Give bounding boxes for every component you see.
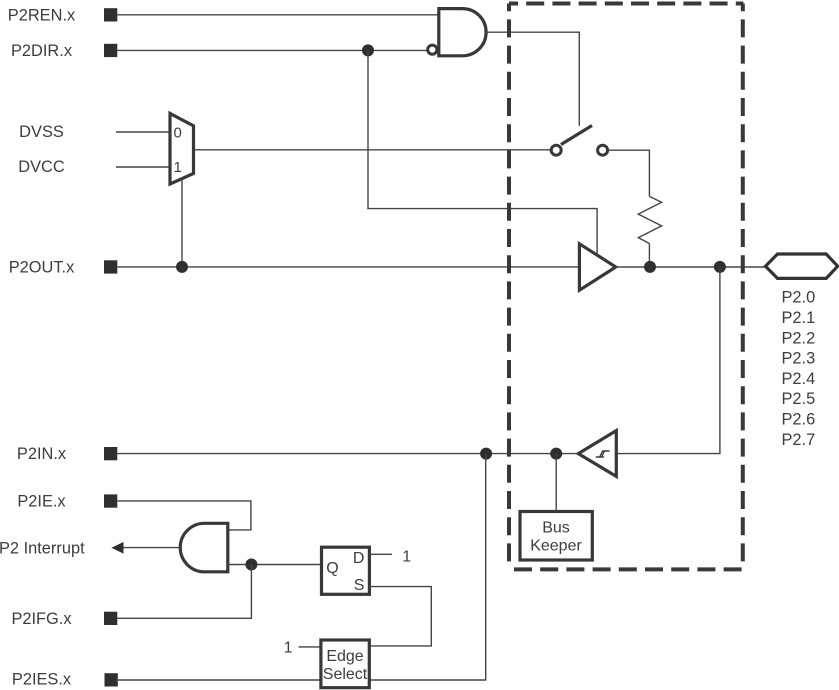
wire P2IES.x to Edge Select xyxy=(118,679,321,681)
module boundary left edge (dashed) xyxy=(507,4,511,570)
svg-text:D: D xyxy=(353,550,365,567)
module boundary right edge (dashed) xyxy=(741,4,745,570)
junction P2IN / edge select tap xyxy=(480,448,492,460)
wire bus keeper tap xyxy=(555,454,557,512)
junction IFG / Q node xyxy=(245,559,257,571)
pad square P2DIR.x xyxy=(104,44,117,57)
junction P2IN / bus keeper tap xyxy=(550,448,562,460)
gate U1 AND with inverted input (P2REN, /P2DIR) xyxy=(439,9,486,56)
pad square P2IE.x xyxy=(104,494,117,507)
wire mux select from P2OUT node xyxy=(181,179,183,267)
svg-text:P2.1: P2.1 xyxy=(782,309,816,327)
wire 1 to Edge Select xyxy=(299,646,321,648)
wire D input tie xyxy=(369,553,392,555)
wire pad to input Schmitt trigger xyxy=(616,267,720,454)
block Edge Select xyxy=(321,640,369,688)
hysteresis symbol in U4 xyxy=(596,451,610,457)
svg-text:P2.3: P2.3 xyxy=(782,350,816,368)
svg-text:Q: Q xyxy=(326,560,338,577)
svg-text:1: 1 xyxy=(402,548,411,565)
svg-text:DVCC: DVCC xyxy=(18,158,65,176)
pad square P2REN.x xyxy=(104,8,117,21)
svg-text:P2DIR.x: P2DIR.x xyxy=(11,42,73,60)
pad square P2IFG.x xyxy=(104,612,117,625)
svg-text:P2IFG.x: P2IFG.x xyxy=(11,610,72,628)
svg-text:Bus: Bus xyxy=(542,520,570,537)
wire DVCC to mux input 1 xyxy=(116,166,170,168)
svg-text:P2.0: P2.0 xyxy=(782,289,816,307)
svg-text:P2.7: P2.7 xyxy=(782,431,816,449)
bubble on U1 lower input xyxy=(428,45,437,54)
wire P2DIR.x to NAND bubble xyxy=(117,49,427,51)
svg-text:P2.4: P2.4 xyxy=(782,370,816,388)
junction P2OUT / mux select xyxy=(176,261,188,273)
switch S1 lever xyxy=(561,126,592,145)
svg-text:S: S xyxy=(354,577,365,594)
svg-text:Edge: Edge xyxy=(326,648,363,665)
wire P2IN.x from Schmitt output xyxy=(117,453,578,455)
block Bus Keeper xyxy=(520,512,592,561)
pad square P2IES.x xyxy=(105,673,118,686)
wire S input from Edge Select xyxy=(369,587,431,646)
gate U5 interrupt AND (left facing) xyxy=(180,523,228,572)
svg-text:P2 Interrupt: P2 Interrupt xyxy=(0,539,85,557)
svg-text:P2IE.x: P2IE.x xyxy=(17,493,66,511)
svg-text:P2.2: P2.2 xyxy=(782,329,816,347)
svg-text:P2.5: P2.5 xyxy=(782,390,816,408)
pin pad hexagon P2.x xyxy=(766,254,838,278)
wire switch to resistor xyxy=(609,150,650,196)
svg-text:1: 1 xyxy=(284,640,293,657)
svg-text:Select: Select xyxy=(323,666,368,683)
wire Edge Select to P2IN tap xyxy=(369,454,485,680)
wire driver output to pad xyxy=(616,266,766,268)
output driver U3 (tri-state buffer) xyxy=(579,244,615,290)
wire P2IFG.x to Q node xyxy=(117,565,251,619)
wire P2DIR to output buffer enable xyxy=(368,50,597,256)
wire P2IE.x to interrupt AND xyxy=(117,501,251,530)
wire DVSS to mux input 0 xyxy=(116,131,170,133)
svg-text:1: 1 xyxy=(174,159,182,176)
wire P2OUT.x to output driver xyxy=(117,266,579,268)
arrowhead P2 Interrupt xyxy=(111,542,123,554)
pad square P2IN.x xyxy=(104,447,117,460)
wire P2REN.x to NAND input xyxy=(117,14,439,16)
module boundary bottom edge (dashed) xyxy=(509,567,743,571)
wire U5 output to arrow xyxy=(122,547,180,549)
junction P2DIR node xyxy=(362,44,374,56)
mux U2 (pull resistor source select) xyxy=(170,113,194,184)
svg-text:P2IN.x: P2IN.x xyxy=(17,445,67,463)
junction pad / input path xyxy=(714,261,726,273)
wire U5 lower input from latch Q xyxy=(228,564,322,566)
switch S1 (pull enable) left contact xyxy=(551,145,561,155)
resistor R1 (pullup/pulldown) xyxy=(638,196,661,243)
wire U1 output to switch control xyxy=(486,32,579,126)
svg-text:P2REN.x: P2REN.x xyxy=(8,7,76,25)
svg-text:DVSS: DVSS xyxy=(19,123,64,141)
svg-text:P2.6: P2.6 xyxy=(782,411,816,429)
svg-text:0: 0 xyxy=(174,124,182,141)
switch S1 right contact xyxy=(598,145,608,155)
module boundary top edge (dashed) xyxy=(509,2,743,6)
svg-text:Keeper: Keeper xyxy=(530,538,582,555)
svg-text:P2OUT.x: P2OUT.x xyxy=(9,258,75,276)
junction resistor / pad line xyxy=(644,261,656,273)
input Schmitt trigger U4 xyxy=(578,431,616,477)
pad square P2OUT.x xyxy=(104,260,117,273)
wire mux output to switch xyxy=(194,149,551,151)
wire resistor to pad node xyxy=(648,244,650,267)
svg-text:P2IES.x: P2IES.x xyxy=(12,671,72,689)
latch U6 (interrupt flag) xyxy=(322,547,370,594)
